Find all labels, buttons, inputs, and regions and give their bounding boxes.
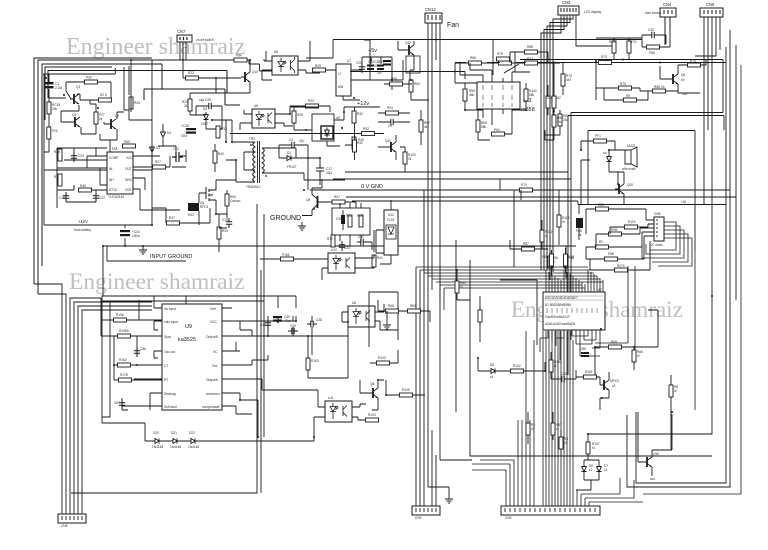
resistor P71 <box>594 134 607 143</box>
wire U9 right caps <box>186 296 348 437</box>
svg-text:R46: R46 <box>80 184 86 188</box>
ic B1 <box>543 288 605 330</box>
regulator U7 <box>336 59 351 96</box>
svg-text:47uf: 47uf <box>181 134 187 138</box>
svg-text:c4p C25: c4p C25 <box>199 98 211 102</box>
connector CN4 <box>645 2 676 17</box>
transistor MPC3 <box>600 379 619 390</box>
resistor R159A <box>118 329 131 338</box>
svg-text:P84: P84 <box>236 54 242 58</box>
svg-text:P26: P26 <box>86 76 92 80</box>
wire MPC3 <box>576 372 609 410</box>
wire U6 leads <box>240 109 293 130</box>
ground near CN9 <box>445 495 453 503</box>
package Q12 outline <box>406 56 420 73</box>
svg-text:r2: r2 <box>564 441 567 445</box>
wire Q8 net <box>360 380 384 410</box>
wire snubber <box>340 203 372 250</box>
resistor R20 <box>47 127 58 139</box>
resistor R158 <box>114 313 127 322</box>
svg-text:L7: L7 <box>338 72 342 76</box>
svg-text:47uf: 47uf <box>284 319 290 323</box>
svg-text:R103: R103 <box>368 413 376 417</box>
svg-text:Q11: Q11 <box>385 139 391 143</box>
svg-text:R98: R98 <box>568 255 574 259</box>
svg-text:P20: P20 <box>52 129 58 133</box>
wire R86t net <box>596 38 642 60</box>
optocoupler U10 <box>328 248 355 273</box>
resistor R86m <box>548 256 558 268</box>
svg-text:R27: R27 <box>155 160 161 164</box>
resistor R68r <box>653 85 666 93</box>
wire R22 net <box>290 106 330 130</box>
svg-text:2.2uf: 2.2uf <box>55 86 62 90</box>
resistor R22 <box>306 99 319 108</box>
svg-text:C22: C22 <box>99 196 105 200</box>
svg-text:R9: R9 <box>54 175 58 179</box>
svg-text:R162: R162 <box>119 358 127 362</box>
wire U9 pin stubs <box>128 308 268 406</box>
svg-text:R161: R161 <box>585 370 593 374</box>
connector CN6 <box>700 2 723 17</box>
svg-text:R68: R68 <box>611 340 617 344</box>
svg-text:R91: R91 <box>387 106 393 110</box>
svg-text:C87: C87 <box>114 401 120 405</box>
capacitor C29 <box>356 61 365 73</box>
svg-text:U10: U10 <box>331 248 337 252</box>
ic Ut3 <box>477 82 535 113</box>
resistor R78v <box>545 96 556 108</box>
svg-text:D1: D1 <box>287 151 291 155</box>
transistor Q20 <box>615 183 633 194</box>
resistor R61h <box>408 304 421 313</box>
svg-text:Q12: Q12 <box>405 41 411 45</box>
capacitor C21 <box>377 60 384 75</box>
svg-text:C29: C29 <box>356 61 362 65</box>
resistor R2m <box>596 240 609 249</box>
wire right double bus <box>455 47 726 113</box>
svg-text:C2: C2 <box>289 138 293 142</box>
box C31 area <box>364 40 403 90</box>
svg-text:R75: R75 <box>690 59 696 63</box>
diode D3a <box>201 107 209 126</box>
svg-text:ka3525: ka3525 <box>178 337 196 343</box>
wire mid right <box>500 179 579 280</box>
transistor Q3 <box>71 113 80 127</box>
svg-text:r3: r3 <box>460 285 463 289</box>
wire B1 bottom pins <box>548 330 600 350</box>
diode D8 <box>488 363 498 379</box>
svg-text:r4: r4 <box>592 446 595 450</box>
svg-text:P88: P88 <box>608 252 614 256</box>
svg-text:R37: R37 <box>327 237 333 241</box>
svg-text:RFC4: RFC4 <box>200 205 209 209</box>
resistor R67b <box>551 423 562 435</box>
op-amp U4 box <box>107 146 133 199</box>
capacitor C28 dark <box>181 124 196 138</box>
svg-text:R162: R162 <box>311 359 319 363</box>
svg-text:R23: R23 <box>598 203 604 207</box>
zener D6 <box>582 464 594 474</box>
svg-text:SEN: SEN <box>125 178 132 182</box>
resistor R65b <box>463 89 475 101</box>
mosfet Q4 <box>200 185 216 209</box>
resistor R161 <box>584 370 597 379</box>
capacitor C1 <box>45 78 62 94</box>
resistor R73a <box>525 57 538 65</box>
wire zener pair <box>576 434 712 490</box>
wire opto U10 leads <box>260 230 374 280</box>
resistor R98v <box>564 254 575 266</box>
svg-text:R070: R070 <box>617 264 625 268</box>
capacitor C31b <box>374 60 391 68</box>
wire C89 <box>551 352 576 379</box>
svg-text:R2: R2 <box>599 240 603 244</box>
resistor R80v <box>455 281 466 293</box>
label +12V from battery <box>74 219 91 232</box>
svg-text:R159A: R159A <box>119 329 130 333</box>
wire R69 stack <box>545 63 554 141</box>
box right of U8b <box>369 292 398 347</box>
diode D21 <box>170 431 181 449</box>
svg-text:Q2: Q2 <box>115 114 119 118</box>
svg-text:+C28: +C28 <box>181 124 189 128</box>
wire B1 lower nets <box>540 336 600 360</box>
svg-text:Fan: Fan <box>447 22 459 29</box>
resistor P154 <box>281 253 294 261</box>
wire U9 left network <box>101 296 186 410</box>
resistor R50 <box>225 194 241 206</box>
resistor R18 <box>47 102 60 114</box>
wire U9 outer boxes <box>102 296 264 423</box>
svg-text:c3: c3 <box>612 384 616 388</box>
wire buzzer net <box>581 141 625 204</box>
capacitor C19 <box>222 218 232 228</box>
capacitor C40 dark <box>273 315 290 323</box>
svg-text:r2: r2 <box>674 389 677 393</box>
svg-text:Q3: Q3 <box>72 113 76 117</box>
svg-text:C23: C23 <box>78 154 84 158</box>
wire CN8mid nets <box>586 209 654 270</box>
svg-text:IN-: IN- <box>109 167 113 171</box>
wire cluster frame <box>43 67 124 101</box>
svg-text:4k: 4k <box>424 125 428 129</box>
diode D1 <box>284 151 297 169</box>
resistor R3b <box>559 437 568 449</box>
wire CN12 pins <box>428 23 472 506</box>
wire C2 loop <box>279 145 308 158</box>
resistor R44 <box>54 149 62 161</box>
svg-text:D4: D4 <box>167 131 171 135</box>
svg-text:scs: scs <box>650 477 655 481</box>
svg-text:compensate: compensate <box>202 405 220 409</box>
svg-text:R9B: R9B <box>611 228 617 232</box>
svg-text:Q6: Q6 <box>681 73 685 77</box>
wire input ground rail <box>103 246 576 296</box>
svg-text:R22: R22 <box>308 99 314 103</box>
svg-text:R40: R40 <box>357 141 363 145</box>
wire Q10a <box>227 51 272 93</box>
wire bottom right resistors <box>528 412 561 456</box>
svg-text:R75: R75 <box>497 52 503 56</box>
wire Ut3 top nets <box>350 40 560 126</box>
svg-text:20k: 20k <box>52 107 58 111</box>
box RC snubber <box>332 208 370 235</box>
wire Q4 area <box>199 160 236 252</box>
resistor R37 <box>167 216 180 225</box>
resistor R46 <box>79 184 92 192</box>
resistor R55 <box>123 140 136 148</box>
svg-text:R65: R65 <box>414 82 420 86</box>
svg-text:R158: R158 <box>116 313 124 317</box>
shunt reg U5 <box>312 114 340 141</box>
svg-text:on off switch: on off switch <box>196 38 214 42</box>
capacitor C30a <box>336 210 345 230</box>
resistor R162a <box>118 358 131 367</box>
resistor R11x <box>564 256 574 268</box>
buzzer BUZ <box>622 144 637 171</box>
svg-text:R66: R66 <box>388 304 394 308</box>
wire R162b <box>308 322 348 378</box>
transistor Q2 <box>107 114 119 129</box>
svg-text:z2: z2 <box>604 468 608 472</box>
svg-text:FR107: FR107 <box>287 165 297 169</box>
svg-text:Q10: Q10 <box>252 70 258 74</box>
svg-text:D2: D2 <box>156 146 160 150</box>
svg-text:U8: U8 <box>352 301 356 305</box>
svg-text:MUZ1: MUZ1 <box>627 144 636 148</box>
svg-text:r1: r1 <box>554 364 557 368</box>
capacitor C87 <box>114 399 125 409</box>
svg-text:R61: R61 <box>410 304 416 308</box>
wire R68m net <box>595 310 658 375</box>
svg-text:R73: R73 <box>601 55 607 59</box>
svg-text:56k: 56k <box>529 93 535 97</box>
svg-text:P154: P154 <box>282 253 290 257</box>
connector CN9 bottom <box>412 506 440 520</box>
capacitor C88 <box>580 347 589 357</box>
capacitor C15 <box>59 192 69 202</box>
connector CN10 bottom <box>501 506 600 520</box>
svg-text:P64: P64 <box>494 128 500 132</box>
svg-text:R23: R23 <box>188 71 194 75</box>
svg-text:C19: C19 <box>222 218 228 222</box>
svg-text:R92: R92 <box>363 127 369 131</box>
svg-text:C13: C13 <box>173 147 179 151</box>
svg-text:Osc out: Osc out <box>164 350 175 354</box>
svg-text:CN8: CN8 <box>654 212 661 216</box>
svg-text:z2: z2 <box>589 468 593 472</box>
svg-text:Q5: Q5 <box>306 198 310 202</box>
svg-text:OUT: OUT <box>125 167 132 171</box>
resistor R92 <box>362 127 375 136</box>
svg-text:R47: R47 <box>334 195 340 199</box>
capacitor C89 <box>558 372 568 382</box>
svg-text:Engineer shamraiz: Engineer shamraiz <box>66 34 245 60</box>
capacitor C38 <box>307 318 322 327</box>
svg-text:MPC3: MPC3 <box>610 379 619 383</box>
svg-text:C89: C89 <box>561 372 567 376</box>
resistor R73b <box>599 55 612 65</box>
svg-text:R73: R73 <box>527 57 533 61</box>
capacitor C23 <box>71 152 84 162</box>
resistor P88m <box>605 252 618 261</box>
wire R103h <box>370 350 398 363</box>
svg-text:56k: 56k <box>481 125 487 129</box>
svg-text:VCC: VCC <box>126 156 133 160</box>
wire transformer leads <box>212 120 345 182</box>
svg-text:unln input: unln input <box>164 320 178 324</box>
resistor R88 <box>525 45 538 54</box>
wire B1 bus horizontals <box>416 267 603 310</box>
svg-text:R8G: R8G <box>609 40 616 44</box>
svg-text:R105: R105 <box>402 388 410 392</box>
wire Q6 <box>660 60 706 94</box>
resistor R40b <box>353 140 364 152</box>
wire Ut3 bottom nets <box>465 63 563 135</box>
resistor R58a <box>390 77 403 86</box>
svg-text:RT: RT <box>164 378 168 382</box>
svg-text:U11: U11 <box>328 396 334 400</box>
svg-text:s9: s9 <box>681 78 685 82</box>
resistor R27a <box>94 112 105 124</box>
wire CN10 bundle <box>472 331 643 506</box>
svg-text:i2C mark: i2C mark <box>650 243 663 247</box>
svg-text:with mark: with mark <box>622 167 636 171</box>
resistor Rv2 <box>478 310 482 322</box>
capacitor C34 <box>120 230 140 238</box>
resistor R105 <box>400 388 413 397</box>
wire C30 loop <box>642 17 670 47</box>
wire D4 <box>162 124 164 146</box>
wire D3 C25 <box>190 106 222 129</box>
resistor R26 <box>85 76 98 85</box>
resistor R070 <box>615 264 628 272</box>
resistor R9r <box>624 94 637 102</box>
wire bus 133 <box>230 134 384 161</box>
optocoupler U11 <box>325 396 352 422</box>
svg-text:C30: C30 <box>336 217 342 221</box>
svg-text:VC: VC <box>213 350 218 354</box>
resistor R103v <box>403 152 416 164</box>
resistor R182 <box>549 360 562 372</box>
resistor R119 <box>625 220 638 229</box>
svg-text:24d: 24d <box>557 120 563 124</box>
svg-text:Q20: Q20 <box>627 183 633 187</box>
svg-text:R58: R58 <box>357 214 363 218</box>
wire R66 R61 <box>378 300 430 322</box>
svg-text:R44: R44 <box>54 150 60 154</box>
shunt U12 <box>384 210 398 255</box>
svg-text:Vref: Vref <box>210 307 216 311</box>
svg-text:1N4148: 1N4148 <box>188 445 199 449</box>
svg-text:C9: C9 <box>388 124 392 128</box>
resistor R66h <box>386 304 399 313</box>
resistor P84 <box>234 54 247 63</box>
svg-text:GROUND: GROUND <box>270 215 301 222</box>
svg-text:R30: R30 <box>222 229 228 233</box>
wire cluster box <box>44 60 152 208</box>
svg-text:Out: Out <box>212 364 217 368</box>
svg-text:R68 Ck: R68 Ck <box>654 85 665 89</box>
wire D8 R102 <box>478 358 545 371</box>
transistor Q5 <box>306 195 322 211</box>
svg-text:U4: U4 <box>112 146 118 151</box>
wire U8 leads <box>262 41 320 80</box>
svg-text:46k: 46k <box>469 93 475 97</box>
wire Rv2 <box>479 296 481 342</box>
wire left of block <box>378 84 412 122</box>
resistor R9a <box>54 174 62 186</box>
resistor R98 <box>609 228 622 236</box>
resistor R33 <box>216 126 227 138</box>
svg-text:CT: CT <box>164 364 168 368</box>
svg-text:47uf: 47uf <box>374 64 380 68</box>
svg-text:-4: -4 <box>545 259 548 263</box>
svg-text:Q8: Q8 <box>370 382 374 386</box>
svg-text:C88: C88 <box>580 347 586 351</box>
svg-text:inv input: inv input <box>164 307 176 311</box>
resistor R23a <box>186 71 199 80</box>
svg-text:+12v: +12v <box>357 101 369 107</box>
wire R29 to U7 <box>326 70 340 73</box>
resistor R103h <box>377 356 390 365</box>
capacitor C32 <box>357 235 367 245</box>
wire CN4 pins <box>665 17 670 45</box>
svg-text:R55: R55 <box>124 140 130 144</box>
svg-text:UE: UE <box>336 116 340 120</box>
zener D7 <box>597 464 609 474</box>
resistor R29 <box>313 64 326 72</box>
svg-text:CN9: CN9 <box>505 516 512 520</box>
svg-text:Q10: Q10 <box>653 452 659 456</box>
transformer TR2 <box>246 137 267 189</box>
crystal Y1 <box>546 96 561 108</box>
wire Q10b <box>638 412 672 476</box>
resistor R47 <box>332 195 345 204</box>
resistor R75v <box>561 74 572 86</box>
wire big rect top <box>568 113 724 376</box>
capacitor C9 <box>387 119 397 128</box>
svg-text:R102: R102 <box>513 364 521 368</box>
wire R8v <box>670 375 672 450</box>
svg-text:2k: 2k <box>184 104 188 108</box>
svg-text:R178: R178 <box>120 373 128 377</box>
svg-text:Carbon: Carbon <box>230 199 241 203</box>
resistor R49 <box>352 137 364 149</box>
wire U11 leads <box>262 379 366 437</box>
resistor R61a <box>524 89 537 101</box>
capacitor C17 <box>316 165 332 178</box>
svg-text:CN9: CN9 <box>415 516 422 520</box>
wire mid horizontal buses <box>310 172 736 205</box>
svg-text:CN3: CN3 <box>562 0 571 5</box>
capacitor C22 <box>93 192 105 202</box>
transistor Q6 <box>669 73 685 84</box>
wire top main bus <box>306 40 642 59</box>
capacitor C33 <box>339 241 350 251</box>
svg-text:Dischag: Dischag <box>164 392 176 396</box>
wire P88v leads <box>500 248 566 345</box>
svg-text:U12: U12 <box>388 213 394 217</box>
svg-text:R2 8: R2 8 <box>100 93 107 97</box>
resistor R37v <box>327 235 335 247</box>
svg-text:C86: C86 <box>140 347 146 351</box>
resistor R8v <box>669 385 678 397</box>
svg-text:CN12: CN12 <box>425 7 436 12</box>
resistor P64 <box>492 128 505 136</box>
svg-text:D22: D22 <box>189 431 195 435</box>
